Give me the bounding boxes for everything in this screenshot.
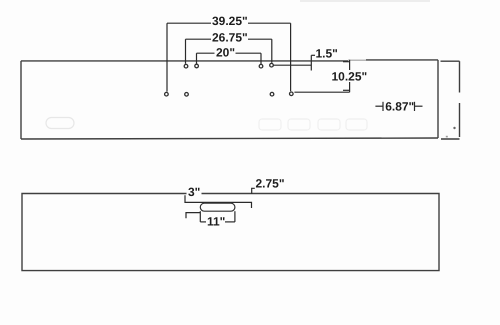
slot rounded rectangle — [200, 203, 235, 211]
dimension 10.25" bottom tick — [343, 89, 350, 91]
hole bottom row 3 — [270, 92, 274, 96]
dimension 11" left leg — [199, 211, 201, 222]
svg-text:10.25": 10.25" — [332, 69, 368, 83]
svg-text:2.75": 2.75" — [256, 177, 285, 191]
dimension 10.25" bottom line to hole — [294, 91, 349, 93]
scan smudge top edge — [300, 0, 430, 2]
dimension 26.75" line — [186, 39, 272, 64]
dimension 2.75" extension step — [185, 188, 255, 208]
dimension 20" line — [197, 53, 262, 64]
svg-text:20": 20" — [216, 46, 235, 60]
right end cap return flange — [441, 61, 460, 139]
faint bleed-through oval left — [46, 118, 74, 129]
hole bottom row 2 — [185, 93, 189, 97]
svg-text:6.87": 6.87" — [385, 99, 414, 113]
dimension 10.25" vertical line — [294, 60, 349, 92]
svg-text:1.5": 1.5" — [316, 47, 338, 61]
hole bottom row 4 — [290, 92, 294, 96]
dimension 11" line — [200, 221, 206, 223]
dimension 26.75" right leg — [271, 39, 273, 63]
dimension 20" left leg — [196, 53, 198, 64]
hole top row 4 — [270, 63, 274, 67]
dimension 6.87" left dash — [375, 102, 422, 111]
dimension 39.25" left leg — [166, 23, 168, 91]
dimension 39.25" right leg — [290, 23, 292, 91]
hole bottom row 1 — [165, 92, 169, 96]
dimension 1.5" tick — [310, 55, 312, 70]
dimension 11" left extension step — [186, 211, 235, 222]
dimension 6.87" right dash — [415, 105, 423, 107]
dimension 2.75" hook — [252, 188, 255, 194]
dimension 1.5" leader line — [272, 55, 316, 70]
dimension 20" right leg — [260, 53, 262, 64]
svg-text:26.75": 26.75" — [212, 30, 248, 44]
dimension 39.25" line — [167, 23, 291, 91]
bottom view plate outline — [22, 194, 439, 271]
dimension 6.87" right tick — [414, 102, 416, 111]
svg-text:39.25": 39.25" — [212, 14, 248, 28]
hole top row 2 — [195, 64, 199, 68]
faint bleed-through slots center-right — [259, 119, 367, 130]
scan dot near end cap — [453, 127, 455, 129]
dimension 11" right leg — [234, 211, 236, 222]
dimension 10.25" top tick — [343, 61, 350, 63]
dimension 3" label background — [187, 187, 202, 196]
svg-text:3": 3" — [188, 185, 200, 199]
hole top row 3 — [259, 64, 263, 68]
top view plate outline — [21, 60, 438, 139]
hole top row 1 — [184, 64, 188, 68]
scan tick near bottom right corner — [446, 136, 448, 138]
svg-text:11": 11" — [207, 214, 225, 228]
dimension 6.87" left tick — [382, 102, 384, 111]
dimension 10.25" label background — [330, 70, 368, 82]
dimension 26.75" left leg — [185, 39, 187, 64]
